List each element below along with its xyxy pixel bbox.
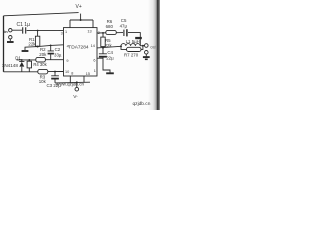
node R1 bottom [37,46,39,48]
diode D1 1N4148 [19,60,24,72]
inductor L1 [121,44,140,46]
node supply junction [80,19,82,21]
resistor R5 [102,33,104,48]
ground under C4 [106,72,114,74]
wire IC supply bus [70,20,93,28]
svg-text:9: 9 [66,59,68,63]
resistor R6 [106,30,117,34]
svg-text:8: 8 [71,71,73,75]
node R1 tap [37,30,39,32]
svg-text:2: 2 [98,31,100,35]
terminal input upper [9,29,12,32]
svg-text:C5: C5 [121,18,127,23]
node C4 tap [102,47,104,49]
wire ground rail under IC [55,81,90,84]
svg-text:C4: C4 [107,50,113,55]
wire pin 14 rail [97,46,121,48]
svg-text:6: 6 [93,58,95,62]
resistor R2 [36,57,46,62]
svg-text:D1: D1 [15,55,21,60]
wire pin 9 rail [17,59,64,61]
node output junction [142,45,144,47]
svg-text:1: 1 [94,69,96,73]
terminal out upper [145,44,149,48]
wire bottom rail to pin 10 [4,71,64,73]
svg-text:22µ: 22µ [106,56,114,61]
capacitor C5 [123,30,125,36]
svg-text:22k: 22k [105,43,113,48]
resistor R4 [28,60,30,72]
svg-text:V-: V- [73,94,78,100]
svg-text:47µ: 47µ [120,23,128,28]
svg-text:13: 13 [87,30,91,34]
svg-text:3: 3 [61,32,63,36]
svg-text:C1 1µ: C1 1µ [17,22,31,28]
svg-text:in: in [4,29,8,34]
svg-text:V+: V+ [76,4,82,10]
ground under input [9,39,11,41]
svg-text:10k: 10k [39,79,47,84]
wire C4 to ground [103,58,110,73]
node R4 tap [28,59,30,61]
svg-text:20k: 20k [39,52,47,57]
svg-text:C2: C2 [55,47,61,52]
op-amp U1 TDA7284 IC body [64,28,98,76]
wire top rail to V+ [4,13,79,16]
resistor R3 [38,69,48,74]
node D1 tap [21,59,23,61]
wire pin 6 stub [97,57,103,59]
node V- tap [76,81,78,83]
svg-text:R7 270: R7 270 [124,53,139,58]
wire input to pin 3 [12,29,64,31]
node C2 tap [50,45,52,47]
node C3 tap [54,71,56,73]
resistor R1 [37,31,39,37]
capacitor C4 [99,48,107,54]
wire pin 2 output [97,32,123,34]
scan shadow right edge [148,0,160,110]
ground under R1 node [22,50,29,52]
wire V+ stub [80,14,82,20]
svg-text:4: 4 [67,44,69,48]
svg-text:22k: 22k [28,42,36,47]
wire C5 to corner [128,33,140,46]
svg-text:15: 15 [86,72,90,76]
svg-text:33µ: 33µ [54,53,62,58]
terminal input lower [9,36,12,39]
capacitor C3 [51,72,59,83]
svg-text:14: 14 [91,44,95,48]
svg-text:www.qzjdb.cn: www.qzjdb.cn [56,81,85,86]
svg-text:10: 10 [65,70,69,74]
node L1 left [120,45,122,47]
svg-text:TDA7284: TDA7284 [68,45,89,51]
terminal out lower [145,51,149,55]
svg-text:R4 30k: R4 30k [33,62,47,67]
svg-text:L1 5µH: L1 5µH [126,39,140,44]
wire node to pin 4 [25,45,64,50]
dark mark near L1 label [135,37,142,39]
capacitor C2 [48,45,54,59]
capacitor C1 [23,27,26,33]
ground under output [145,54,147,56]
wire pin 8 stub [69,76,71,83]
node R5 tap [102,32,104,34]
resistor R7 [121,46,143,50]
svg-text:680: 680 [106,24,114,29]
terminal V- [76,82,78,87]
wire pin 15 stub [83,76,85,82]
svg-text:1: 1 [65,30,67,34]
wire left border [3,16,5,72]
wire to output terminal [140,45,144,47]
svg-text:1N4148: 1N4148 [2,63,19,68]
